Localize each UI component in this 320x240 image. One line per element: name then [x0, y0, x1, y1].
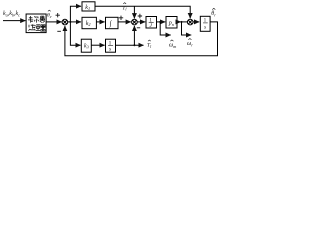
node branch	[69, 21, 71, 23]
wire Kalman to sum1	[46, 21, 62, 23]
wire k3 to 1/s	[91, 44, 104, 46]
wire pn to sum3	[177, 21, 181, 23]
wire k2 to integrator	[96, 21, 104, 23]
summing junction S1	[62, 19, 68, 25]
svg-text:ωr: ωr	[187, 41, 193, 47]
svg-text:k2: k2	[86, 21, 91, 27]
svg-text:θe: θe	[47, 13, 52, 19]
wire 1/J to pn	[157, 21, 166, 23]
pole pairs pn box	[166, 17, 177, 29]
wire branch up	[70, 6, 81, 22]
wire tap wm	[160, 22, 171, 35]
svg-text:pn: pn	[168, 21, 174, 27]
wire sum1 to k2	[68, 21, 81, 23]
label 1/J	[149, 17, 154, 29]
svg-text:k1: k1	[85, 5, 90, 11]
label 1/s final	[203, 18, 208, 31]
minus sign sum2 bottom	[137, 27, 140, 29]
svg-text:∫: ∫	[109, 20, 113, 28]
wire tap wr	[182, 22, 192, 35]
input arrow	[3, 20, 25, 22]
wire sum3 to 1/s	[193, 21, 199, 23]
svg-text:k3: k3	[84, 43, 89, 49]
plus sign sum2 top	[138, 14, 142, 18]
output feedback wire	[65, 22, 218, 56]
wire tap to sum2 top	[133, 6, 135, 18]
top rail wire	[95, 6, 190, 18]
Kalman filter box	[26, 14, 46, 33]
wire branch down to k3	[70, 22, 80, 45]
wire integrator to sum2	[118, 21, 131, 23]
kalman box text 过滤器	[28, 24, 45, 31]
node TL	[133, 44, 135, 46]
label 1/s row3	[108, 40, 113, 52]
plus sign sum2 left	[119, 16, 123, 20]
wire sum2 to 1/J	[137, 21, 145, 23]
wire TL feedback up to sum2	[133, 26, 135, 45]
summing junction S3	[187, 19, 193, 25]
gain k2 box	[82, 17, 96, 28]
integrator box	[106, 17, 119, 28]
node tap wr	[181, 21, 183, 23]
gain k3 box	[81, 39, 91, 52]
integrator 1/s box	[200, 16, 210, 31]
gain k1 box	[82, 2, 95, 11]
kalman box text 卡尔曼	[28, 16, 45, 23]
wire 1/s to TL arrow	[116, 44, 144, 46]
svg-text:ka,kb,kc: ka,kb,kc	[3, 11, 20, 17]
svg-text:s: s	[204, 25, 206, 31]
svg-text:ωm: ωm	[169, 43, 176, 49]
svg-text:θr: θr	[211, 11, 216, 17]
inertia 1/J box	[146, 17, 157, 29]
summing junction S2	[132, 19, 138, 25]
plus sign sum1	[56, 13, 60, 17]
integrator 1/s row3 box	[106, 39, 116, 52]
node tap wm	[159, 21, 161, 23]
svg-text:Tl: Tl	[147, 43, 152, 49]
svg-text:s: s	[109, 46, 111, 52]
minus sign sum1	[57, 30, 61, 32]
